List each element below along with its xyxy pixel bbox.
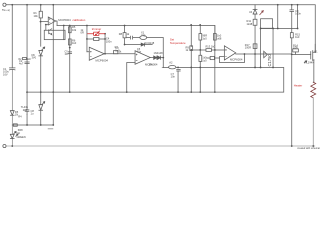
svg-text:10k: 10k: [33, 14, 38, 18]
svg-text:R13 1k0: R13 1k0: [205, 44, 215, 48]
svg-text:IRLZ44N: IRLZ44N: [304, 60, 315, 64]
svg-text:U4: U4: [249, 10, 253, 14]
svg-text:Heater: Heater: [294, 83, 302, 87]
svg-text:10n: 10n: [137, 49, 142, 53]
svg-text:1k48: 1k48: [247, 22, 253, 26]
svg-text:100n: 100n: [295, 11, 301, 15]
svg-text:Q1: Q1: [314, 49, 318, 53]
svg-text:R4: R4: [18, 115, 22, 119]
svg-text:MCP6004: MCP6004: [58, 18, 71, 22]
svg-text:100n: 100n: [106, 39, 112, 43]
svg-text:2k4: 2k4: [23, 108, 28, 112]
svg-text:1N4148: 1N4148: [153, 51, 163, 55]
svg-text:trimmer: trimmer: [92, 27, 102, 31]
svg-text:10n: 10n: [171, 75, 176, 79]
svg-text:10k: 10k: [148, 63, 153, 67]
svg-text:D4: D4: [16, 131, 20, 135]
svg-text:3V0: 3V0: [31, 56, 36, 60]
svg-text:R8: R8: [119, 32, 123, 36]
svg-text:created with schematics: created with schematics: [297, 147, 320, 149]
svg-text:1u0: 1u0: [115, 49, 120, 53]
svg-text:calibration: calibration: [73, 18, 86, 22]
svg-text:u68: u68: [217, 36, 222, 40]
svg-text:GREEN: GREEN: [16, 135, 25, 139]
svg-text:1u0: 1u0: [202, 36, 207, 40]
svg-text:Temperature: Temperature: [170, 41, 186, 45]
svg-text:16V: 16V: [3, 72, 8, 76]
svg-text:1k0: 1k0: [295, 35, 300, 39]
svg-text:5V+ a): 5V+ a): [2, 8, 10, 12]
svg-text:1k0: 1k0: [72, 41, 77, 45]
svg-text:770: 770: [141, 33, 146, 37]
svg-text:4u7: 4u7: [19, 61, 24, 65]
svg-text:C1750: C1750: [267, 54, 272, 67]
svg-text:0R: 0R: [81, 30, 84, 34]
svg-text:A2: A2: [169, 61, 173, 65]
svg-text:10k: 10k: [72, 28, 77, 32]
svg-text:1N4148: 1N4148: [145, 41, 155, 45]
svg-text:MCP6004: MCP6004: [96, 58, 109, 62]
svg-text:1u0: 1u0: [202, 58, 207, 62]
svg-text:10R: 10R: [293, 46, 298, 50]
svg-text:MCP6004: MCP6004: [230, 58, 243, 62]
svg-text:100R: 100R: [245, 46, 251, 50]
